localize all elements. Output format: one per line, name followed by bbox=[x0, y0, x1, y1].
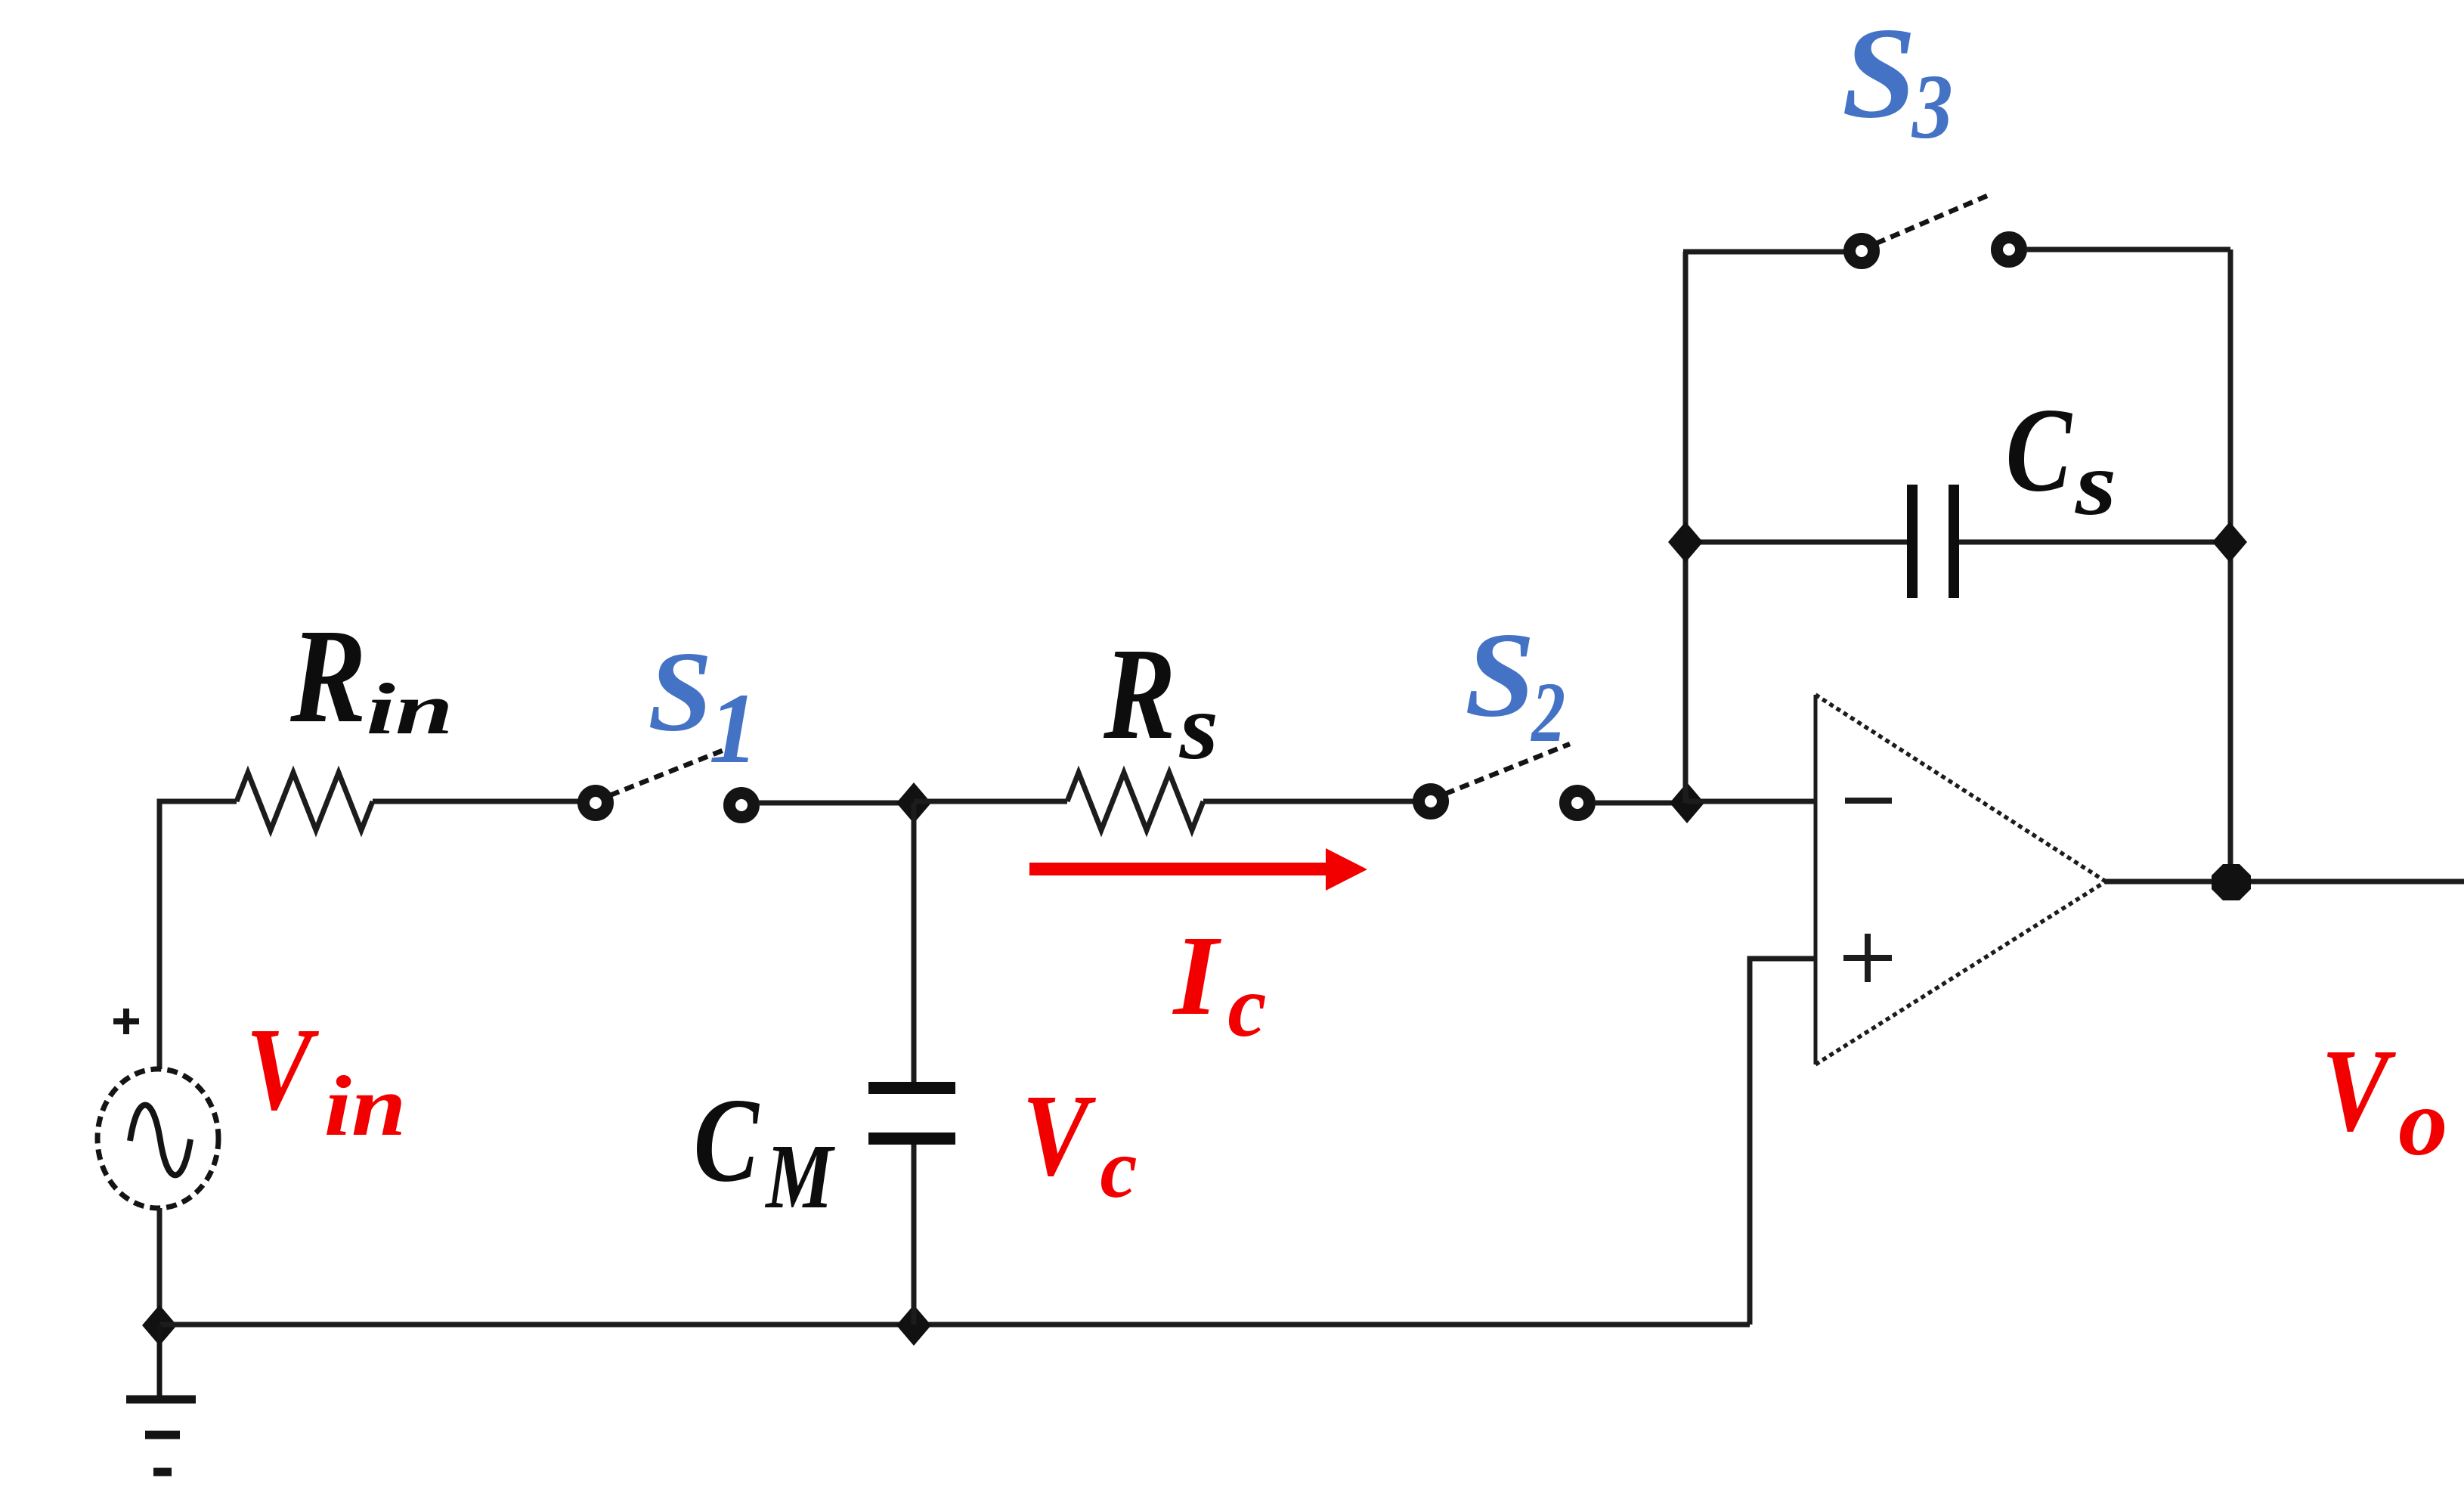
wire Cs right bbox=[1959, 540, 2230, 545]
wire S3 to feedback right vertical bbox=[2026, 247, 2230, 253]
label S2 bbox=[1465, 608, 1565, 760]
label Vo bbox=[2321, 1024, 2447, 1175]
voltage source Vin bbox=[98, 1009, 218, 1208]
svg-text:R: R bbox=[289, 601, 366, 751]
label Vin bbox=[246, 1004, 406, 1154]
wire node A down to CM bbox=[912, 803, 917, 1082]
wire bottom rail bbox=[159, 1322, 1750, 1328]
svg-text:V: V bbox=[1022, 1071, 1096, 1201]
capacitor Cs bbox=[1912, 485, 1954, 598]
svg-text:in: in bbox=[324, 1058, 407, 1154]
wire S2 to node B bbox=[1594, 801, 1687, 806]
label Vc bbox=[1022, 1071, 1137, 1216]
svg-text:M: M bbox=[765, 1126, 836, 1229]
svg-text:c: c bbox=[1100, 1122, 1137, 1216]
node Cs left junction bbox=[1668, 522, 1703, 562]
svg-text:s: s bbox=[1179, 674, 1218, 779]
svg-text:o: o bbox=[2398, 1069, 2448, 1176]
node A junction after S1 bbox=[896, 782, 931, 823]
node B inverting input junction bbox=[1670, 782, 1704, 823]
wire feedback right vertical bbox=[2228, 249, 2233, 882]
wire node B to op-amp inverting input bbox=[1687, 799, 1815, 804]
node output junction bbox=[2212, 864, 2251, 900]
wire op-amp output bbox=[2106, 879, 2464, 885]
svg-text:R: R bbox=[1103, 621, 1175, 767]
switch S3 bbox=[1850, 196, 2021, 263]
svg-text:3: 3 bbox=[1911, 55, 1953, 157]
svg-text:C: C bbox=[2006, 383, 2073, 516]
svg-text:C: C bbox=[694, 1074, 760, 1207]
label Rin bbox=[289, 601, 453, 751]
svg-text:S: S bbox=[1465, 608, 1535, 742]
svg-text:2: 2 bbox=[1530, 665, 1565, 760]
label S1 bbox=[648, 627, 758, 784]
label Rs bbox=[1103, 621, 1218, 779]
wire S1 to node A bbox=[758, 801, 914, 806]
wire Rs to S2 bbox=[1203, 799, 1414, 804]
wire Rin to S1 bbox=[373, 799, 579, 804]
node CM bottom junction bbox=[896, 1305, 931, 1346]
node ground junction bbox=[142, 1305, 177, 1346]
wire node A to Rs bbox=[914, 799, 1067, 804]
ground bbox=[126, 1325, 196, 1472]
svg-text:I: I bbox=[1172, 912, 1221, 1038]
label Ic bbox=[1172, 912, 1266, 1055]
svg-text:S: S bbox=[1842, 0, 1917, 144]
switch S1 bbox=[583, 745, 754, 817]
wire source bottom to ground rail bbox=[157, 1208, 163, 1325]
svg-text:V: V bbox=[2321, 1024, 2396, 1156]
op-amp U1 bbox=[1815, 695, 2106, 1064]
label CM bbox=[694, 1074, 836, 1229]
wire feedback left vertical bbox=[1683, 252, 1689, 803]
resistor Rin bbox=[237, 773, 373, 830]
svg-text:c: c bbox=[1227, 959, 1266, 1055]
svg-text:s: s bbox=[2075, 433, 2117, 535]
resistor Rs bbox=[1067, 773, 1203, 830]
label Cs bbox=[2006, 383, 2117, 534]
svg-text:S: S bbox=[648, 627, 712, 754]
label S3 bbox=[1842, 0, 1953, 157]
svg-text:1: 1 bbox=[709, 672, 758, 785]
wire Cs left bbox=[1685, 540, 1907, 545]
svg-text:V: V bbox=[246, 1004, 319, 1135]
capacitor CM bbox=[868, 1088, 955, 1139]
node Cs right junction bbox=[2212, 522, 2247, 562]
wire op-amp noninverting input bbox=[1750, 959, 1815, 1325]
wire input top from source to Rin bbox=[159, 801, 237, 1069]
wire CM to bottom rail bbox=[912, 1145, 917, 1325]
current arrow Ic bbox=[1029, 848, 1367, 891]
wire feedback top left to S3 bbox=[1683, 249, 1845, 255]
svg-text:in: in bbox=[367, 668, 453, 749]
switch S2 bbox=[1419, 744, 1590, 815]
